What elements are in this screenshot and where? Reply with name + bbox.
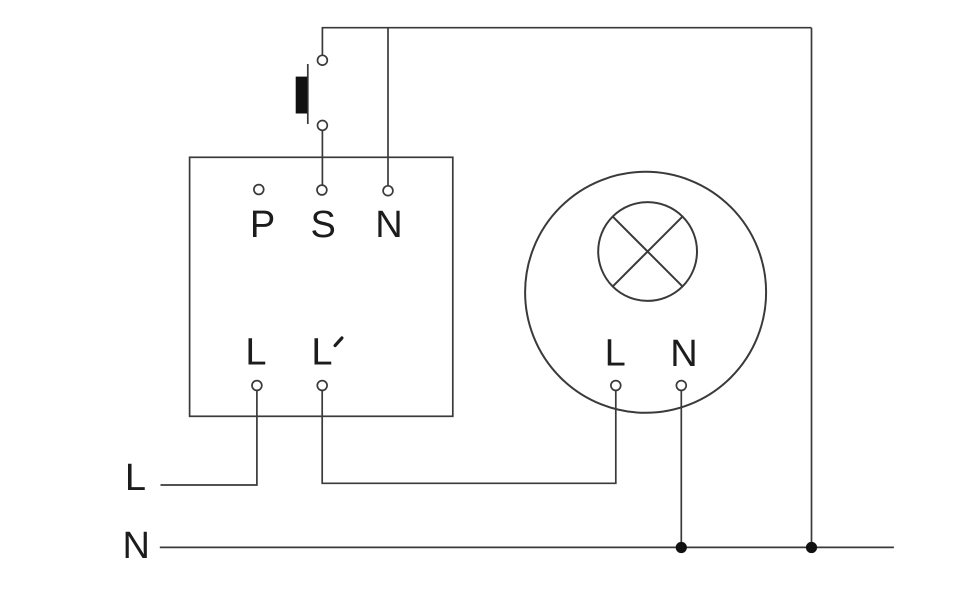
svg-text:S: S [311, 204, 336, 246]
wire top bus to terminal N [387, 28, 389, 186]
terminal N contact [383, 186, 393, 196]
svg-text:L: L [125, 457, 146, 499]
svg-text:N: N [122, 525, 149, 567]
junction dot right drop on N bus [806, 542, 817, 553]
push button S1 actuator stem [307, 64, 309, 124]
N bus wire [160, 546, 894, 548]
terminal P contact [254, 185, 264, 195]
svg-text:L: L [245, 332, 266, 374]
lamp housing circle [525, 172, 766, 413]
terminal L contact (box bottom) [252, 381, 262, 391]
svg-text:P: P [250, 204, 275, 246]
wire push button to terminal S [321, 130, 323, 185]
wire top bus: from push button up and across to right side [322, 28, 811, 56]
push button S1 top contact [318, 55, 328, 65]
svg-text:N: N [375, 204, 402, 246]
svg-text:L: L [311, 332, 332, 374]
lamp terminal L contact [611, 381, 621, 391]
sensor unit box [190, 157, 453, 416]
terminal L' contact (box bottom) [317, 381, 327, 391]
lamp symbol cross [613, 217, 683, 287]
lamp terminal N contact [676, 381, 686, 391]
push button S1 bottom contact [318, 121, 328, 131]
svg-text:N: N [670, 333, 697, 375]
label terminal L' accent [335, 338, 342, 346]
lamp symbol circle [598, 202, 697, 301]
terminal S contact [317, 185, 327, 195]
svg-text:L: L [605, 333, 626, 375]
wire lamp terminal N to N bus [680, 390, 682, 547]
push button S1 actuator cap [296, 77, 308, 114]
wire right vertical drop to N bus [811, 28, 813, 548]
junction dot lamp N on N bus [676, 542, 687, 553]
wire terminal L down-left to L feed [161, 390, 257, 485]
wire terminal L' to lamp terminal L [322, 390, 616, 483]
